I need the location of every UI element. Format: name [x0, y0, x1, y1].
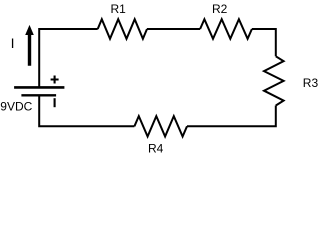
battery plus sign	[51, 76, 59, 84]
resistor R1	[98, 19, 147, 39]
svg-text:R3: R3	[303, 76, 319, 90]
wire from battery positive up and right to R1	[39, 29, 97, 87]
wire R2 right and down to R3	[252, 29, 276, 56]
svg-text:R1: R1	[111, 2, 127, 16]
resistor R4	[134, 116, 187, 136]
svg-text:R2: R2	[212, 2, 228, 16]
wire R1 to R2	[147, 28, 200, 30]
current arrow I	[25, 25, 34, 66]
battery V1 positive plate (long)	[14, 86, 64, 89]
resistor R3	[264, 56, 284, 105]
resistor R2	[200, 19, 252, 39]
svg-text:R4: R4	[148, 142, 164, 156]
wire R3 down and left to R4	[187, 106, 276, 127]
svg-text:I: I	[11, 35, 15, 51]
battery minus sign (rotated tick)	[54, 98, 56, 107]
wire R4 left and up to battery negative	[39, 96, 134, 126]
svg-text:9VDC: 9VDC	[0, 99, 32, 113]
battery V1 negative plate (short)	[21, 94, 56, 96]
